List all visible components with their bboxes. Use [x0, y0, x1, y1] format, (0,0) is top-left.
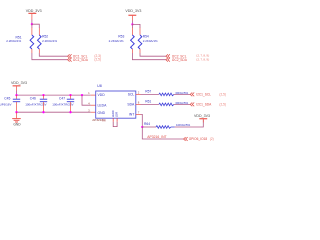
- svg-text:GND: GND: [98, 111, 106, 115]
- svg-text:VDD_3V3: VDD_3V3: [125, 9, 141, 13]
- svg-text:R54: R54: [143, 34, 149, 38]
- resistor R53: [109, 34, 135, 49]
- node junction: [131, 23, 133, 25]
- svg-text:UF6/16V: UF6/16V: [0, 102, 11, 106]
- node junction: [69, 94, 71, 96]
- wire R52 to SCL row: [38, 49, 40, 53]
- power VDD_3V3 (top-left): [26, 9, 42, 20]
- svg-text:C45: C45: [4, 96, 10, 100]
- node junction: [141, 126, 143, 128]
- wire INT pin down: [136, 113, 141, 115]
- capacitor C46: [25, 95, 47, 112]
- svg-text:2.2K0A/1%: 2.2K0A/1%: [6, 39, 21, 43]
- svg-text:(2,5): (2,5): [94, 58, 101, 62]
- wire R64 to VDD: [175, 119, 204, 127]
- svg-text:C46: C46: [30, 96, 36, 100]
- svg-text:R64: R64: [144, 122, 150, 126]
- off-page connector I2C1_SCL: [190, 92, 226, 96]
- svg-text:I2C1_SCL: I2C1_SCL: [196, 93, 211, 97]
- svg-text:AP3216_INT: AP3216_INT: [147, 135, 166, 139]
- svg-text:LEDA: LEDA: [98, 103, 108, 107]
- svg-text:I2C1_SDA: I2C1_SDA: [73, 58, 89, 62]
- node junction: [42, 94, 44, 96]
- svg-text:SCL: SCL: [128, 93, 135, 97]
- svg-text:GND: GND: [13, 123, 21, 127]
- wire LEDC/LDR tie: [113, 118, 117, 126]
- wire: [132, 24, 140, 28]
- off-page connector I2C1_SCL: [68, 54, 101, 58]
- svg-text:INT: INT: [129, 113, 134, 117]
- node junction: [69, 111, 71, 113]
- wire: [31, 24, 33, 28]
- off-page connector I2C1_SDA: [68, 58, 101, 62]
- svg-text:R52: R52: [42, 34, 48, 38]
- svg-text:VDD_3V3: VDD_3V3: [194, 114, 210, 118]
- off-page connector I2C2_SCL: [166, 54, 210, 59]
- wire R54 to SCL row: [139, 49, 141, 53]
- off-page connector I2C2_SDA: [166, 57, 210, 62]
- resistor R51: [6, 35, 34, 49]
- svg-text:2.2K0A/1%: 2.2K0A/1%: [143, 39, 158, 43]
- ground: [12, 112, 21, 126]
- svg-text:C47: C47: [59, 96, 65, 100]
- wire: [131, 21, 133, 25]
- svg-text:R61: R61: [145, 100, 151, 104]
- svg-text:I2C2_SDA: I2C2_SDA: [172, 58, 188, 62]
- capacitor C47: [52, 95, 74, 112]
- resistor R57: [145, 90, 188, 96]
- power VDD_3V3 (top-right): [125, 9, 141, 21]
- node junction: [15, 111, 17, 113]
- wire SCL pin to R57: [136, 93, 141, 95]
- svg-text:R57: R57: [145, 90, 151, 94]
- wire: [131, 24, 133, 28]
- off-page connector I2C1_SDA: [190, 102, 226, 106]
- svg-text:R53: R53: [118, 34, 124, 38]
- wire R53 to SDA row: [131, 49, 133, 53]
- resistor R54: [138, 34, 158, 49]
- resistor R61: [145, 100, 188, 106]
- op-amp U8 AP3216C ambient light sensor: [92, 84, 136, 122]
- wire LEDA branch: [82, 95, 91, 105]
- svg-text:VDD_3V3: VDD_3V3: [26, 9, 42, 13]
- wire INT net down to GPIO row: [142, 127, 183, 139]
- wire bottom bus: [17, 111, 91, 113]
- power VDD_3V3 (INT pull-up): [194, 114, 210, 123]
- node junction: [15, 94, 17, 96]
- resistor R52: [38, 34, 58, 49]
- svg-text:U8: U8: [97, 84, 102, 88]
- svg-text:(2,7,8,9): (2,7,8,9): [196, 57, 209, 61]
- capacitor C45: [0, 95, 20, 112]
- node junction: [42, 111, 44, 113]
- svg-text:VDD: VDD: [98, 93, 106, 97]
- svg-text:10K0A/5%: 10K0A/5%: [176, 123, 191, 127]
- svg-text:VDD_3V3: VDD_3V3: [11, 81, 27, 85]
- svg-text:(2): (2): [210, 137, 214, 141]
- svg-text:(2,5): (2,5): [219, 92, 226, 96]
- node junction: [81, 94, 83, 96]
- power VDD_3V3 (bottom-left): [11, 81, 27, 91]
- svg-text:(2,5): (2,5): [219, 102, 226, 106]
- node junction: [31, 23, 33, 25]
- wire: [32, 24, 39, 28]
- wire R51 to SDA row: [31, 49, 33, 53]
- svg-text:GPIO6_IO18: GPIO6_IO18: [189, 137, 208, 141]
- wire R57 to connector: [174, 93, 190, 95]
- svg-text:I2C1_SDA: I2C1_SDA: [196, 103, 212, 107]
- svg-text:2.2K0A/1%: 2.2K0A/1%: [42, 39, 57, 43]
- wire R61 to connector: [174, 103, 190, 105]
- resistor R64: [144, 122, 191, 128]
- wire: [31, 20, 33, 25]
- svg-text:SDA: SDA: [127, 103, 135, 107]
- svg-text:2.2K0A/1%: 2.2K0A/1%: [109, 39, 124, 43]
- wire SDA pin to R61: [136, 103, 141, 105]
- wire VDD stem to bus: [16, 91, 18, 96]
- wire junction to R64: [142, 126, 156, 128]
- svg-text:LDR: LDR: [115, 112, 119, 117]
- off-page connector GPIO6_IO18: [184, 137, 214, 141]
- wire top bus: [17, 94, 91, 96]
